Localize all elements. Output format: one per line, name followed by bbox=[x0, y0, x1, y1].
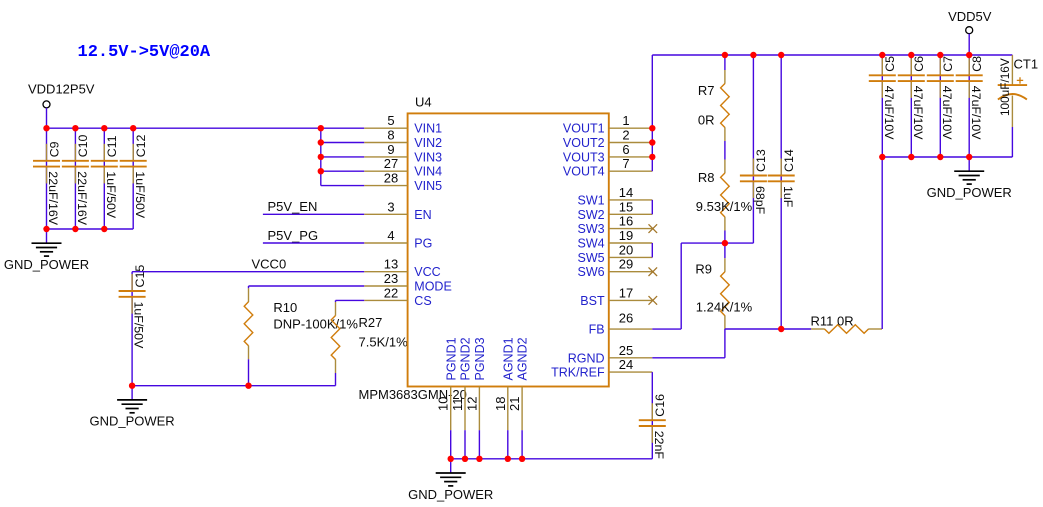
svg-text:7.5K/1%: 7.5K/1% bbox=[359, 335, 409, 350]
svg-text:VOUT4: VOUT4 bbox=[563, 165, 605, 179]
svg-text:14: 14 bbox=[619, 185, 633, 200]
power VDD5V bbox=[948, 9, 992, 34]
pin SW5 (20) bbox=[578, 242, 653, 265]
svg-text:5: 5 bbox=[387, 113, 394, 128]
pin PGND1 (10) bbox=[436, 337, 459, 430]
svg-text:C8: C8 bbox=[970, 56, 984, 72]
junction bbox=[966, 154, 972, 160]
wire RGND horizontal bbox=[652, 357, 725, 359]
wire AGND2 drop bbox=[521, 430, 523, 459]
svg-text:SW6: SW6 bbox=[578, 265, 605, 279]
pin VIN5 (28) bbox=[364, 171, 442, 194]
svg-text:VOUT3: VOUT3 bbox=[563, 150, 605, 164]
capacitor C10 bbox=[62, 128, 90, 229]
svg-text:PGND2: PGND2 bbox=[459, 337, 473, 380]
svg-text:C10: C10 bbox=[76, 134, 90, 157]
wire VDD5V top rail bbox=[652, 54, 1012, 56]
capacitor C7 bbox=[927, 55, 955, 157]
svg-text:VCC0: VCC0 bbox=[252, 256, 287, 271]
junction bbox=[778, 326, 784, 332]
svg-text:47uF/10V: 47uF/10V bbox=[969, 86, 983, 140]
svg-text:VOUT2: VOUT2 bbox=[563, 136, 605, 150]
wire FB pin to corner bbox=[652, 328, 681, 330]
pin SW6 (29) bbox=[578, 257, 653, 280]
pin CS (22) bbox=[364, 285, 431, 308]
wire stair vertical bbox=[320, 128, 322, 185]
capacitor C6 bbox=[898, 55, 926, 157]
svg-text:U4: U4 bbox=[415, 95, 432, 110]
svg-text:MODE: MODE bbox=[414, 280, 452, 294]
ground GND_POWER left bbox=[4, 229, 89, 272]
junction bbox=[318, 154, 324, 160]
wire SW4-SW5 tie bbox=[651, 243, 653, 257]
svg-text:20: 20 bbox=[619, 242, 633, 257]
svg-text:C13: C13 bbox=[754, 149, 768, 172]
svg-text:VIN3: VIN3 bbox=[414, 150, 442, 164]
svg-text:SW1: SW1 bbox=[578, 193, 605, 207]
wire PGND2 drop bbox=[464, 430, 466, 459]
junction bbox=[130, 125, 136, 131]
pin BST (17) bbox=[580, 285, 652, 308]
pin EN (3) bbox=[364, 199, 431, 222]
wire bbox=[263, 213, 364, 215]
svg-text:VIN2: VIN2 bbox=[414, 136, 442, 150]
pin VIN4 (27) bbox=[364, 156, 442, 179]
svg-text:9.53K/1%: 9.53K/1% bbox=[696, 199, 753, 214]
svg-text:11: 11 bbox=[450, 398, 465, 412]
svg-text:0R: 0R bbox=[698, 113, 715, 128]
svg-text:22uF/16V: 22uF/16V bbox=[75, 171, 89, 225]
svg-text:DNP-100K/1%: DNP-100K/1% bbox=[273, 317, 358, 332]
svg-text:C6: C6 bbox=[912, 56, 926, 72]
svg-text:C16: C16 bbox=[653, 394, 667, 417]
junction bbox=[476, 456, 482, 462]
op-amp U4 MPM3683GMN-20 body bbox=[408, 113, 609, 386]
svg-text:1uF: 1uF bbox=[781, 186, 795, 208]
resistor R27 bbox=[331, 300, 408, 385]
svg-text:6: 6 bbox=[622, 142, 629, 157]
no-connect x SW6 pin 29 bbox=[649, 267, 658, 276]
pin SW3 (16) bbox=[578, 214, 653, 237]
junction bbox=[519, 456, 525, 462]
svg-text:47uF/10V: 47uF/10V bbox=[940, 86, 954, 140]
wire RGND vertical bbox=[724, 329, 726, 358]
power VDD12P5V bbox=[28, 82, 95, 108]
pin PGND3 (12) bbox=[464, 337, 487, 430]
capacitor C15 bbox=[119, 265, 147, 386]
svg-text:12: 12 bbox=[464, 397, 479, 411]
svg-text:16: 16 bbox=[619, 214, 633, 229]
pin MODE (23) bbox=[364, 271, 452, 294]
svg-text:C11: C11 bbox=[105, 135, 119, 157]
no-connect x BST pin 17 bbox=[649, 296, 658, 305]
pin VOUT3 (6) bbox=[563, 142, 652, 165]
resistor R10 bbox=[244, 286, 358, 386]
svg-text:R27: R27 bbox=[359, 315, 383, 330]
svg-text:C12: C12 bbox=[134, 134, 148, 157]
wire bbox=[263, 242, 364, 244]
svg-text:EN: EN bbox=[414, 208, 431, 222]
svg-text:R9: R9 bbox=[695, 262, 712, 277]
capacitor C13 bbox=[740, 55, 768, 243]
svg-text:22uF/16V: 22uF/16V bbox=[46, 171, 60, 225]
pin VIN3 (9) bbox=[364, 142, 442, 165]
resistor R7 bbox=[698, 55, 729, 160]
svg-text:18: 18 bbox=[493, 397, 508, 411]
svg-text:10: 10 bbox=[436, 397, 451, 411]
svg-text:VCC: VCC bbox=[414, 265, 440, 279]
capacitor CT1 polarized bbox=[998, 55, 1038, 157]
wire PGND1 drop bbox=[450, 430, 452, 459]
svg-text:SW2: SW2 bbox=[578, 208, 605, 222]
pin FB (26) bbox=[589, 311, 653, 337]
capacitor C5 bbox=[869, 55, 897, 157]
svg-text:AGND1: AGND1 bbox=[501, 337, 515, 380]
svg-text:R10: R10 bbox=[273, 300, 297, 315]
junction bbox=[318, 139, 324, 145]
junction bbox=[966, 52, 972, 58]
svg-text:1uF/50V: 1uF/50V bbox=[132, 302, 146, 350]
svg-text:17: 17 bbox=[619, 285, 633, 300]
wire bus2 bbox=[132, 385, 335, 387]
wire bottom bus bbox=[451, 458, 653, 460]
wire VIN bus bbox=[47, 127, 365, 129]
junction bbox=[908, 52, 914, 58]
svg-text:19: 19 bbox=[619, 228, 633, 243]
svg-text:13: 13 bbox=[384, 257, 398, 272]
svg-text:SW5: SW5 bbox=[578, 251, 605, 265]
svg-text:12.5V->5V@20A: 12.5V->5V@20A bbox=[78, 43, 211, 62]
svg-text:15: 15 bbox=[619, 199, 633, 214]
svg-text:7: 7 bbox=[622, 156, 629, 171]
svg-text:VIN1: VIN1 bbox=[414, 122, 442, 136]
svg-text:68pF: 68pF bbox=[753, 186, 767, 215]
svg-text:AGND2: AGND2 bbox=[516, 337, 530, 380]
junction bbox=[722, 52, 728, 58]
junction bbox=[245, 383, 251, 389]
wire bbox=[321, 142, 365, 144]
svg-text:1.24K/1%: 1.24K/1% bbox=[696, 300, 753, 315]
wire bbox=[321, 170, 365, 172]
pin RGND (25) bbox=[568, 343, 653, 366]
wire caps bottom bus bbox=[47, 228, 134, 230]
junction bbox=[129, 383, 135, 389]
svg-text:25: 25 bbox=[619, 343, 633, 358]
junction bbox=[879, 52, 885, 58]
junction bbox=[937, 154, 943, 160]
svg-text:GND_POWER: GND_POWER bbox=[89, 414, 174, 429]
svg-text:R11 0R: R11 0R bbox=[811, 314, 854, 329]
wire PGND3 drop bbox=[478, 430, 480, 459]
wire SW1-SW2 tie bbox=[651, 200, 653, 214]
svg-text:1uF/50V: 1uF/50V bbox=[104, 171, 118, 219]
junction bbox=[649, 154, 655, 160]
pin TRK/REF (24) bbox=[551, 357, 652, 380]
junction bbox=[101, 226, 107, 232]
junction bbox=[722, 240, 728, 246]
svg-text:28: 28 bbox=[384, 171, 398, 186]
svg-text:PGND1: PGND1 bbox=[444, 337, 458, 380]
capacitor C12 bbox=[120, 128, 148, 229]
svg-text:R7: R7 bbox=[698, 83, 715, 98]
svg-text:C15: C15 bbox=[133, 265, 147, 288]
junction bbox=[43, 226, 49, 232]
svg-text:VDD5V: VDD5V bbox=[948, 9, 992, 24]
wire bbox=[968, 34, 970, 55]
svg-text:24: 24 bbox=[619, 357, 633, 372]
capacitor C11 bbox=[91, 128, 119, 229]
svg-text:27: 27 bbox=[384, 156, 398, 171]
wire CS bbox=[336, 299, 365, 301]
svg-text:22: 22 bbox=[384, 285, 398, 300]
junction bbox=[649, 125, 655, 131]
svg-text:C5: C5 bbox=[883, 56, 897, 72]
pin SW2 (15) bbox=[578, 199, 653, 222]
junction bbox=[649, 139, 655, 145]
svg-text:GND_POWER: GND_POWER bbox=[4, 257, 89, 272]
junction bbox=[101, 125, 107, 131]
wire node line bbox=[681, 242, 753, 244]
wire output bottom rail bbox=[882, 156, 1012, 158]
svg-text:8: 8 bbox=[387, 128, 394, 143]
svg-text:PGND3: PGND3 bbox=[473, 337, 487, 380]
svg-text:C14: C14 bbox=[782, 149, 796, 172]
svg-text:VOUT1: VOUT1 bbox=[563, 122, 605, 136]
junction bbox=[908, 154, 914, 160]
junction bbox=[318, 168, 324, 174]
pin SW4 (19) bbox=[578, 228, 653, 251]
junction bbox=[72, 125, 78, 131]
svg-text:R8: R8 bbox=[698, 170, 715, 185]
pin AGND1 (18) bbox=[493, 337, 516, 430]
pin VOUT1 (1) bbox=[563, 113, 652, 136]
capacitor C16 bbox=[639, 372, 667, 459]
svg-text:CS: CS bbox=[414, 294, 431, 308]
svg-text:SW3: SW3 bbox=[578, 222, 605, 236]
svg-text:9: 9 bbox=[387, 142, 394, 157]
wire MODE bbox=[249, 285, 365, 287]
ground GND_POWER mid bbox=[89, 386, 174, 429]
wire bbox=[132, 271, 364, 273]
capacitor C8 bbox=[956, 55, 984, 157]
pin PG (4) bbox=[364, 228, 432, 251]
svg-text:23: 23 bbox=[384, 271, 398, 286]
svg-text:CT1: CT1 bbox=[1014, 56, 1039, 71]
pin PGND2 (11) bbox=[450, 337, 473, 430]
junction bbox=[448, 456, 454, 462]
svg-text:29: 29 bbox=[619, 257, 633, 272]
wire AGND1 drop bbox=[507, 430, 509, 459]
svg-text:P5V_PG: P5V_PG bbox=[268, 228, 319, 243]
wire bbox=[321, 185, 365, 187]
junction bbox=[937, 52, 943, 58]
resistor R8 bbox=[696, 160, 753, 244]
svg-text:1: 1 bbox=[622, 113, 629, 128]
svg-text:GND_POWER: GND_POWER bbox=[408, 487, 493, 502]
junction bbox=[778, 52, 784, 58]
resistor R11 bbox=[811, 314, 883, 334]
svg-text:47uF/10V: 47uF/10V bbox=[882, 86, 896, 140]
junction bbox=[43, 125, 49, 131]
ground GND_POWER right bbox=[927, 157, 1012, 200]
junction bbox=[72, 226, 78, 232]
junction bbox=[879, 154, 885, 160]
resistor R9 bbox=[695, 243, 752, 329]
svg-text:P5V_EN: P5V_EN bbox=[268, 199, 318, 214]
wire bbox=[46, 108, 48, 128]
svg-text:100uF/16V: 100uF/16V bbox=[998, 58, 1012, 116]
svg-text:PG: PG bbox=[414, 237, 432, 251]
wire FB to R11 bbox=[725, 328, 811, 330]
svg-text:BST: BST bbox=[580, 294, 605, 308]
wire R11 up bbox=[881, 157, 883, 329]
svg-text:VIN5: VIN5 bbox=[414, 179, 442, 193]
junction bbox=[318, 125, 324, 131]
wire VOUT vertical bbox=[651, 55, 653, 171]
pin VOUT4 (7) bbox=[563, 156, 652, 179]
capacitor C9 bbox=[33, 128, 61, 229]
ground GND_POWER bottom bbox=[408, 459, 493, 502]
svg-text:C7: C7 bbox=[941, 56, 955, 72]
junction bbox=[462, 456, 468, 462]
pin AGND2 (21) bbox=[507, 337, 530, 430]
capacitor C14 bbox=[768, 55, 796, 329]
wire bbox=[321, 156, 365, 158]
junction bbox=[750, 52, 756, 58]
svg-text:C9: C9 bbox=[47, 141, 61, 157]
svg-text:26: 26 bbox=[619, 311, 633, 326]
no-connect x SW3 pin 16 bbox=[649, 224, 658, 233]
svg-text:VDD12P5V: VDD12P5V bbox=[28, 82, 95, 97]
svg-text:2: 2 bbox=[622, 128, 629, 143]
svg-text:1uF/50V: 1uF/50V bbox=[133, 171, 147, 219]
wire FB vertical bbox=[680, 243, 682, 329]
svg-text:GND_POWER: GND_POWER bbox=[927, 185, 1012, 200]
svg-text:RGND: RGND bbox=[568, 351, 605, 365]
pin SW1 (14) bbox=[578, 185, 653, 208]
svg-text:FB: FB bbox=[589, 323, 605, 337]
pin VIN1 (5) bbox=[364, 113, 442, 136]
svg-text:SW4: SW4 bbox=[578, 237, 605, 251]
svg-text:22nF: 22nF bbox=[652, 431, 666, 460]
pin VOUT2 (2) bbox=[563, 128, 652, 151]
svg-text:4: 4 bbox=[387, 228, 394, 243]
svg-text:VIN4: VIN4 bbox=[414, 165, 442, 179]
svg-text:3: 3 bbox=[387, 199, 394, 214]
pin VCC (13) bbox=[364, 257, 440, 280]
svg-text:21: 21 bbox=[507, 397, 522, 411]
svg-text:TRK/REF: TRK/REF bbox=[551, 366, 605, 380]
pin VIN2 (8) bbox=[364, 128, 442, 151]
svg-text:47uF/10V: 47uF/10V bbox=[911, 86, 925, 140]
junction bbox=[505, 456, 511, 462]
